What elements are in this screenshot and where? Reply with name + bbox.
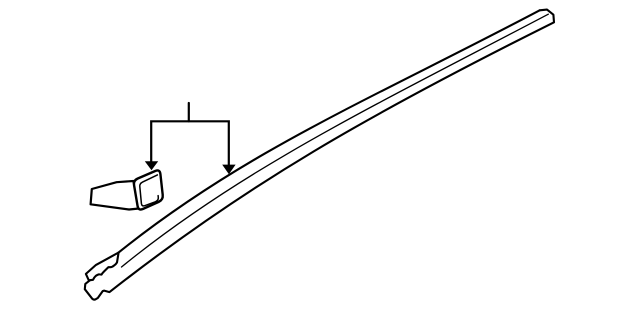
callout bracket [151, 103, 229, 165]
arrow to molding [222, 165, 235, 175]
clip body [91, 181, 139, 210]
molding strip top edge with torn break line [90, 10, 540, 280]
molding lower foot and bottom edge [85, 10, 554, 300]
clip front face [134, 170, 163, 209]
arrow to clip [145, 161, 158, 170]
molding end tab (torn-away clip tab) [86, 253, 119, 281]
molding middle ridge line [122, 14, 549, 267]
clip face inner line [140, 175, 159, 206]
